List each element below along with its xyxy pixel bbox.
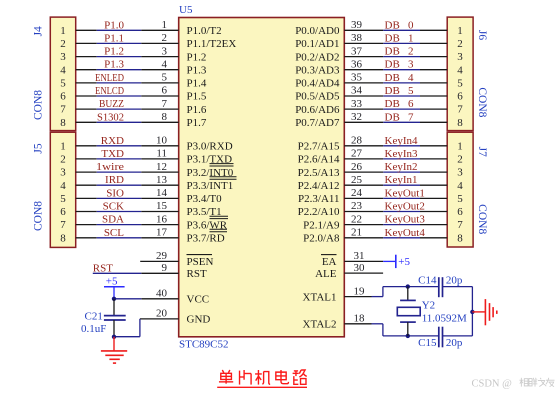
svg-text:KeyOut1: KeyOut1 <box>385 187 425 199</box>
svg-text:3: 3 <box>162 45 168 57</box>
svg-text:8: 8 <box>457 232 463 244</box>
svg-text:8: 8 <box>162 111 168 123</box>
svg-text:KeyOut2: KeyOut2 <box>385 201 425 213</box>
svg-text:RXD: RXD <box>101 135 124 147</box>
svg-text:1: 1 <box>162 19 168 31</box>
svg-text:16: 16 <box>156 213 168 225</box>
svg-text:P2.0/A8: P2.0/A8 <box>303 233 340 245</box>
svg-text:DB: DB <box>385 85 400 97</box>
svg-text:7: 7 <box>408 111 414 123</box>
svg-text:P0.2/AD2: P0.2/AD2 <box>295 51 339 63</box>
svg-text:29: 29 <box>156 250 168 262</box>
svg-text:5: 5 <box>60 78 66 90</box>
svg-text:P3.4/T0: P3.4/T0 <box>187 193 223 205</box>
svg-text:20p: 20p <box>446 337 463 349</box>
svg-text:CON8: CON8 <box>476 204 488 234</box>
svg-text:P2.6/A14: P2.6/A14 <box>298 154 340 166</box>
svg-text:+5: +5 <box>106 275 118 287</box>
svg-text:24: 24 <box>351 187 363 199</box>
svg-text:CON8: CON8 <box>32 201 44 231</box>
svg-text:6: 6 <box>457 206 463 218</box>
svg-text:7: 7 <box>457 104 463 116</box>
svg-text:DB: DB <box>385 72 400 84</box>
svg-text:37: 37 <box>351 45 363 57</box>
svg-text:C21: C21 <box>85 310 103 322</box>
svg-text:J6: J6 <box>476 30 488 40</box>
svg-text:P1.0/T2: P1.0/T2 <box>187 25 222 37</box>
svg-text:P3.3/INT1: P3.3/INT1 <box>187 180 234 192</box>
svg-text:8: 8 <box>60 232 66 244</box>
svg-text:CSDN @: CSDN @ <box>472 378 513 389</box>
svg-text:P2.2/A10: P2.2/A10 <box>298 206 340 218</box>
svg-text:P2.4/A12: P2.4/A12 <box>298 180 340 192</box>
svg-text:33: 33 <box>351 98 363 110</box>
svg-text:14: 14 <box>156 187 168 199</box>
svg-text:23: 23 <box>351 200 363 212</box>
svg-text:P1.4: P1.4 <box>187 78 207 90</box>
svg-text:P0.1/AD1: P0.1/AD1 <box>295 38 339 50</box>
svg-text:11.0592M: 11.0592M <box>422 312 467 324</box>
svg-text:7: 7 <box>457 219 463 231</box>
svg-text:Y2: Y2 <box>422 300 435 312</box>
svg-text:P0.4/AD4: P0.4/AD4 <box>295 78 340 90</box>
svg-text:P0.0/AD0: P0.0/AD0 <box>295 25 340 37</box>
svg-text:34: 34 <box>351 85 363 97</box>
svg-text:18: 18 <box>354 313 366 325</box>
svg-text:P2.1/A9: P2.1/A9 <box>303 219 340 231</box>
svg-text:30: 30 <box>354 262 366 274</box>
svg-text:4: 4 <box>60 64 66 76</box>
svg-text:CON8: CON8 <box>32 90 44 120</box>
svg-text:DB: DB <box>385 59 400 71</box>
svg-text:P2.5/A13: P2.5/A13 <box>298 167 340 179</box>
svg-text:J4: J4 <box>32 26 44 36</box>
svg-text:3: 3 <box>457 51 463 63</box>
svg-text:EA: EA <box>322 256 337 268</box>
svg-text:6: 6 <box>408 98 414 110</box>
svg-text:DB: DB <box>385 19 400 31</box>
svg-text:8: 8 <box>457 117 463 129</box>
svg-text:P1.1: P1.1 <box>104 32 124 44</box>
svg-text:P1.3: P1.3 <box>104 59 124 71</box>
svg-text:20p: 20p <box>446 274 463 286</box>
svg-text:CON8: CON8 <box>476 87 488 117</box>
svg-text:P0.7/AD7: P0.7/AD7 <box>295 117 340 129</box>
svg-text:+5: +5 <box>398 256 410 268</box>
svg-text:DB: DB <box>385 111 400 123</box>
svg-text:0: 0 <box>408 19 414 31</box>
svg-text:22: 22 <box>351 213 362 225</box>
svg-text:P2.7/A15: P2.7/A15 <box>298 141 340 153</box>
svg-text:P1.7: P1.7 <box>187 117 207 129</box>
svg-text:P1.3: P1.3 <box>187 64 207 76</box>
svg-text:DB: DB <box>385 32 400 44</box>
svg-text:1: 1 <box>60 140 66 152</box>
svg-text:VCC: VCC <box>187 294 210 306</box>
svg-text:J5: J5 <box>32 143 44 153</box>
svg-text:XTAL1: XTAL1 <box>303 291 337 303</box>
svg-text:ENLED: ENLED <box>95 72 124 84</box>
svg-text:9: 9 <box>162 262 168 274</box>
svg-text:21: 21 <box>351 227 362 239</box>
svg-text:P2.3/A11: P2.3/A11 <box>298 193 339 205</box>
svg-text:1: 1 <box>457 25 463 37</box>
svg-text:STC89C52: STC89C52 <box>179 339 229 351</box>
svg-text:GND: GND <box>187 314 211 326</box>
svg-text:P1.0: P1.0 <box>104 19 124 31</box>
svg-text:P3.7/RD: P3.7/RD <box>187 233 225 245</box>
svg-text:5: 5 <box>457 78 463 90</box>
svg-text:3: 3 <box>60 167 66 179</box>
svg-text:P1.2: P1.2 <box>187 51 207 63</box>
svg-text:2: 2 <box>457 38 463 50</box>
svg-text:13: 13 <box>156 174 168 186</box>
svg-text:TXD: TXD <box>101 148 124 160</box>
svg-text:5: 5 <box>408 85 414 97</box>
svg-text:11: 11 <box>156 148 167 160</box>
svg-text:KeyOut3: KeyOut3 <box>385 214 426 226</box>
svg-text:19: 19 <box>354 285 366 297</box>
svg-text:P0.6/AD6: P0.6/AD6 <box>295 104 340 116</box>
svg-text:P3.0/RXD: P3.0/RXD <box>187 141 233 153</box>
svg-text:P1.5: P1.5 <box>187 91 207 103</box>
svg-text:6: 6 <box>60 206 66 218</box>
svg-text:4: 4 <box>457 64 463 76</box>
svg-text:17: 17 <box>156 227 168 239</box>
svg-text:1: 1 <box>457 140 463 152</box>
svg-text:7: 7 <box>60 104 66 116</box>
svg-text:0.1uF: 0.1uF <box>81 323 106 335</box>
svg-text:XTAL2: XTAL2 <box>303 319 337 331</box>
svg-text:31: 31 <box>354 250 365 262</box>
svg-text:4: 4 <box>408 72 414 84</box>
svg-text:5: 5 <box>457 193 463 205</box>
svg-text:3: 3 <box>60 51 66 63</box>
svg-text:27: 27 <box>351 148 363 160</box>
svg-text:1: 1 <box>408 32 414 44</box>
svg-text:10: 10 <box>156 135 168 147</box>
svg-text:PSEN: PSEN <box>187 256 214 268</box>
svg-text:3: 3 <box>457 167 463 179</box>
svg-text:38: 38 <box>351 32 363 44</box>
svg-text:4: 4 <box>60 180 66 192</box>
svg-text:S1302: S1302 <box>97 111 124 123</box>
svg-text:4: 4 <box>457 180 463 192</box>
svg-text:7: 7 <box>162 98 168 110</box>
svg-text:SCL: SCL <box>104 227 124 239</box>
svg-text:36: 36 <box>351 58 363 70</box>
svg-text:35: 35 <box>351 72 363 84</box>
svg-text:J7: J7 <box>476 147 488 157</box>
svg-text:SIO: SIO <box>106 187 124 199</box>
svg-text:P1.6: P1.6 <box>187 104 207 116</box>
svg-text:25: 25 <box>351 174 363 186</box>
svg-text:DB: DB <box>385 98 400 110</box>
svg-text:1: 1 <box>60 25 66 37</box>
svg-text:1wire: 1wire <box>96 161 124 173</box>
svg-text:ALE: ALE <box>315 268 337 280</box>
svg-text:BUZZ: BUZZ <box>99 98 124 110</box>
svg-text:KeyOut4: KeyOut4 <box>385 227 426 239</box>
svg-text:5: 5 <box>162 72 168 84</box>
svg-text:P1.1/T2EX: P1.1/T2EX <box>187 38 237 50</box>
svg-text:P0.3/AD3: P0.3/AD3 <box>295 64 340 76</box>
svg-text:2: 2 <box>60 38 66 50</box>
svg-text:2: 2 <box>457 154 463 166</box>
svg-text:ENLCD: ENLCD <box>95 85 124 97</box>
svg-text:28: 28 <box>351 135 363 147</box>
svg-text:KeyIn4: KeyIn4 <box>385 135 418 147</box>
svg-text:RST: RST <box>93 262 113 274</box>
svg-text:3: 3 <box>408 59 414 71</box>
svg-text:SCK: SCK <box>103 201 124 213</box>
svg-text:6: 6 <box>457 91 463 103</box>
svg-text:2: 2 <box>408 46 414 58</box>
svg-text:6: 6 <box>162 85 168 97</box>
svg-text:DB: DB <box>385 46 400 58</box>
svg-text:32: 32 <box>351 111 362 123</box>
svg-text:2: 2 <box>60 154 66 166</box>
svg-text:IRD: IRD <box>105 174 124 186</box>
svg-text:KeyIn3: KeyIn3 <box>385 148 418 160</box>
svg-text:RST: RST <box>187 268 207 280</box>
svg-text:26: 26 <box>351 161 363 173</box>
svg-text:5: 5 <box>60 193 66 205</box>
svg-text:C14: C14 <box>418 274 437 286</box>
svg-text:KeyIn1: KeyIn1 <box>385 174 418 186</box>
svg-text:U5: U5 <box>179 4 193 16</box>
svg-text:15: 15 <box>156 200 168 212</box>
svg-text:P0.5/AD5: P0.5/AD5 <box>295 91 340 103</box>
svg-text:P1.2: P1.2 <box>104 46 124 58</box>
svg-text:6: 6 <box>60 91 66 103</box>
svg-text:SDA: SDA <box>102 214 124 226</box>
svg-text:KeyIn2: KeyIn2 <box>385 161 418 173</box>
svg-text:8: 8 <box>60 117 66 129</box>
svg-text:20: 20 <box>156 308 168 320</box>
svg-text:C15: C15 <box>418 337 437 349</box>
svg-text:4: 4 <box>162 58 168 70</box>
svg-text:12: 12 <box>156 161 167 173</box>
svg-text:2: 2 <box>162 32 168 44</box>
svg-text:40: 40 <box>156 288 168 300</box>
svg-text:39: 39 <box>351 19 363 31</box>
svg-text:7: 7 <box>60 219 66 231</box>
